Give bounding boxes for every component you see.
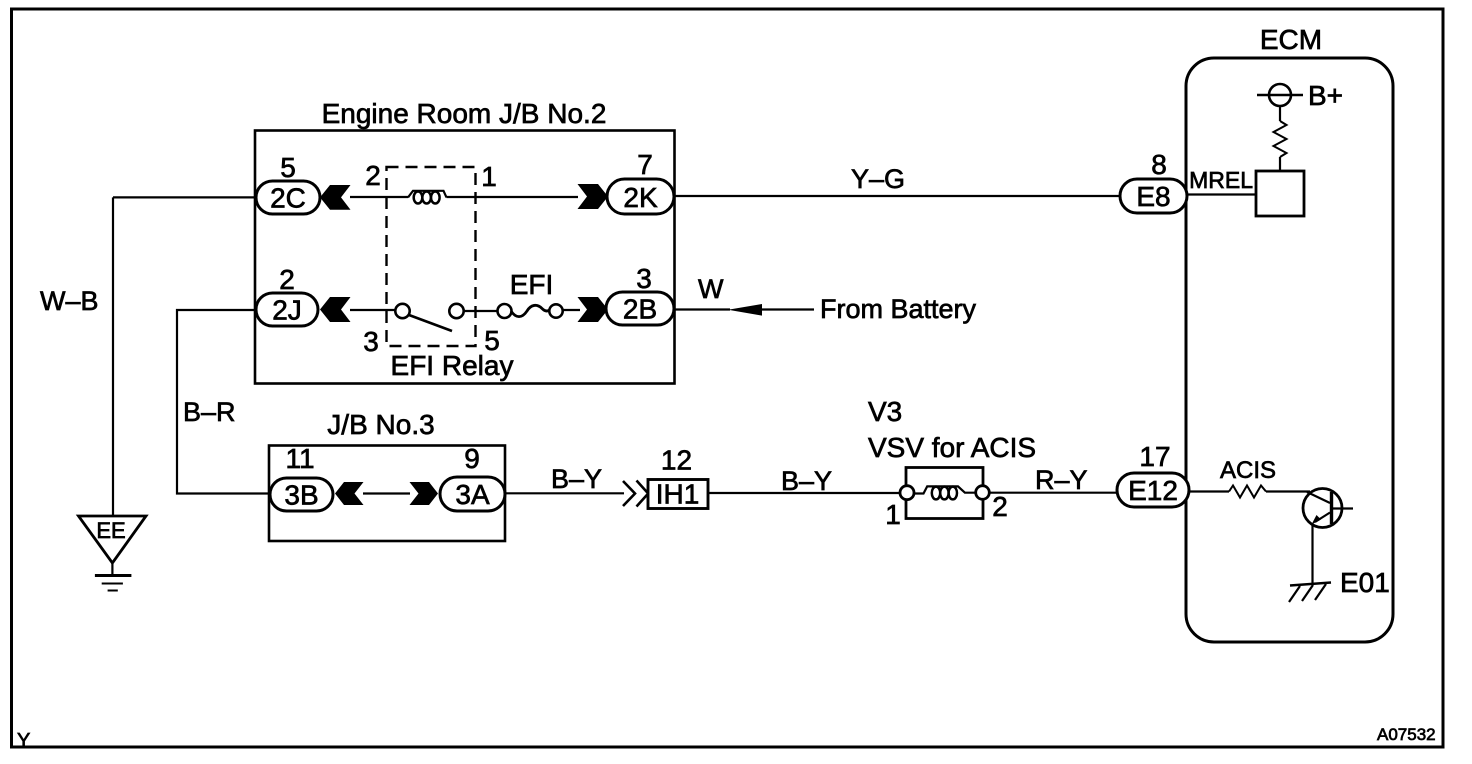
svg-text:11: 11 (285, 443, 314, 474)
ground EE (79, 516, 147, 591)
svg-text:ACIS: ACIS (1220, 457, 1276, 484)
wire VSV to E12 (989, 492, 1117, 494)
svg-text:7: 7 (637, 149, 653, 180)
svg-text:VSV for ACIS: VSV for ACIS (868, 432, 1036, 463)
svg-text:9: 9 (464, 443, 480, 474)
transistor (ACIS driver) (1303, 489, 1353, 528)
junction block J/B No.2 box (255, 98, 675, 384)
arrow at 2C (320, 185, 351, 210)
svg-text:2C: 2C (270, 183, 306, 214)
ECM box (1186, 24, 1393, 642)
wire W-B horizontal (113, 196, 256, 198)
wire fuse to 2B arrow (563, 309, 581, 311)
svg-text:R–Y: R–Y (1035, 465, 1088, 495)
wire MREL block to resistor (1279, 157, 1281, 171)
connector 2K (607, 179, 674, 214)
arrow at 2K (578, 184, 609, 209)
svg-text:Y: Y (17, 730, 30, 752)
svg-text:E01: E01 (1340, 567, 1390, 598)
relay coil (408, 191, 447, 204)
resistor (B+ pull-up) (1274, 121, 1287, 157)
svg-text:EE: EE (96, 518, 125, 543)
wire E12 to ACIS resistor (1189, 490, 1229, 492)
svg-text:Engine Room J/B No.2: Engine Room J/B No.2 (322, 98, 607, 129)
svg-text:EFI: EFI (510, 269, 554, 300)
svg-text:3B: 3B (284, 480, 318, 511)
wire IH1 to VSV (708, 492, 901, 494)
svg-text:A07532: A07532 (1377, 725, 1436, 744)
svg-text:W–B: W–B (40, 286, 99, 316)
svg-text:B–Y: B–Y (551, 464, 602, 494)
connector E8 (1120, 179, 1187, 213)
relay switch (395, 304, 463, 331)
connector IH1 box (648, 479, 708, 510)
wire E8 to MREL block (1187, 193, 1256, 195)
wire 2J-arrow to switch (350, 309, 395, 311)
svg-text:MREL: MREL (1189, 167, 1253, 193)
connector 3A (440, 477, 505, 511)
svg-text:12: 12 (661, 445, 692, 476)
svg-text:J/B No.3: J/B No.3 (327, 409, 434, 440)
wire Y-G 2K to E8 (675, 195, 1121, 197)
svg-text:W: W (698, 274, 724, 304)
svg-text:V3: V3 (868, 396, 902, 427)
svg-text:2: 2 (992, 491, 1008, 522)
arrow at 3A (410, 482, 439, 505)
relay EFI Relay dashed outline (387, 167, 514, 381)
wire resistor to B+ (1279, 106, 1281, 121)
junction block J/B No.3 box (269, 409, 505, 541)
wire 3A to IH1 (505, 492, 624, 494)
svg-text:1: 1 (885, 499, 901, 530)
wire 2B to battery arrow (675, 308, 731, 310)
connector 2B (606, 292, 674, 325)
svg-text:B+: B+ (1308, 80, 1343, 111)
svg-text:2B: 2B (623, 294, 657, 325)
connector E12 (1117, 473, 1189, 507)
svg-text:E8: E8 (1136, 181, 1170, 212)
svg-text:5: 5 (484, 325, 500, 356)
connector 2J (256, 293, 318, 326)
svg-text:2: 2 (365, 160, 381, 191)
wire W-B vertical (112, 197, 114, 516)
svg-text:ECM: ECM (1260, 24, 1322, 55)
battery feed B+ symbol (1257, 84, 1303, 106)
svg-text:2J: 2J (272, 295, 302, 326)
wire resistor to transistor base (1266, 490, 1310, 492)
connector IH1 chevrons (623, 481, 648, 507)
arrow at 2J (320, 297, 351, 322)
connector 2C (256, 181, 320, 214)
svg-text:3A: 3A (455, 479, 490, 510)
MREL driver block (1256, 171, 1304, 216)
svg-text:From Battery: From Battery (820, 294, 977, 324)
svg-text:3: 3 (363, 326, 379, 357)
svg-text:B–R: B–R (183, 397, 236, 427)
arrow at 2B (578, 297, 609, 322)
svg-text:2K: 2K (623, 182, 658, 213)
arrow at 3B (335, 482, 364, 505)
wire coil-to-2K-arrow (447, 196, 579, 198)
wire switch to fuse (464, 310, 499, 312)
ground E01 (1289, 583, 1331, 603)
svg-text:E12: E12 (1128, 475, 1178, 506)
svg-text:B–Y: B–Y (781, 466, 832, 496)
wire between 3B/3A arrows (363, 492, 410, 494)
wire arrow to From Battery (762, 308, 814, 310)
svg-text:5: 5 (280, 152, 296, 183)
solenoid valve V3 VSV for ACIS (900, 468, 989, 519)
svg-text:17: 17 (1139, 441, 1170, 472)
arrow from battery (728, 304, 762, 316)
wire transistor emitter to E01 ground (1311, 525, 1313, 584)
connector 3B (270, 478, 333, 511)
svg-text:Y–G: Y–G (851, 164, 905, 194)
svg-text:8: 8 (1151, 149, 1167, 180)
svg-text:3: 3 (636, 263, 652, 294)
wire B-R from 2J (177, 310, 270, 494)
resistor ACIS (1229, 486, 1266, 498)
svg-text:1: 1 (481, 161, 497, 192)
svg-text:IH1: IH1 (656, 479, 700, 510)
wire arrow-to-relay-coil (350, 196, 408, 198)
svg-text:2: 2 (279, 264, 295, 295)
fuse EFI (498, 304, 563, 318)
